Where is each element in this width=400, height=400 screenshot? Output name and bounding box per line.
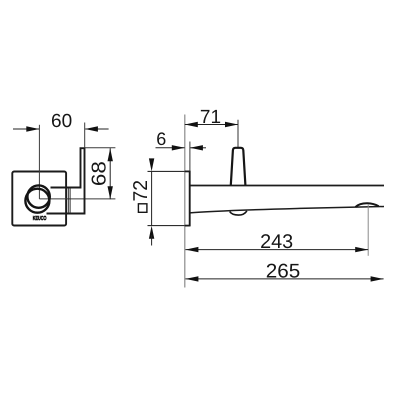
knob circle lower (crescent) <box>25 189 49 213</box>
lever joint lines <box>67 188 69 213</box>
dim 243 <box>185 231 368 253</box>
spout underside dip <box>230 211 247 215</box>
handle post (side view) <box>231 148 246 185</box>
svg-text:KEUCO: KEUCO <box>33 215 47 222</box>
extension line outlet center (dim 243) <box>367 204 369 256</box>
svg-text:6: 6 <box>156 129 166 149</box>
svg-text:72: 72 <box>130 180 152 202</box>
svg-text:60: 60 <box>51 111 72 132</box>
dim 68 <box>85 148 116 199</box>
dim 6 <box>156 129 207 171</box>
wall line <box>184 115 186 288</box>
lever handle L-outline <box>47 148 85 213</box>
svg-text:71: 71 <box>200 107 221 128</box>
dim 71 <box>185 107 238 147</box>
knob circle outer <box>27 185 49 207</box>
dim 60 right extension <box>84 123 86 148</box>
dim 265 <box>185 261 383 283</box>
escutcheon side view <box>148 171 190 227</box>
center extension line vertical (dim 60 left) <box>38 125 40 199</box>
spout bottom edge <box>190 207 384 213</box>
spout top edge <box>190 185 384 187</box>
dim 60 <box>13 111 109 132</box>
svg-text:68: 68 <box>89 161 111 186</box>
dim 72 <box>130 158 154 245</box>
spout tip outlet bump <box>356 203 379 207</box>
svg-text:265: 265 <box>266 261 301 283</box>
svg-text:243: 243 <box>260 231 293 253</box>
center extension line horizontal (dim 68 bottom) <box>39 198 115 200</box>
front view: square escutcheon plate <box>12 172 66 226</box>
